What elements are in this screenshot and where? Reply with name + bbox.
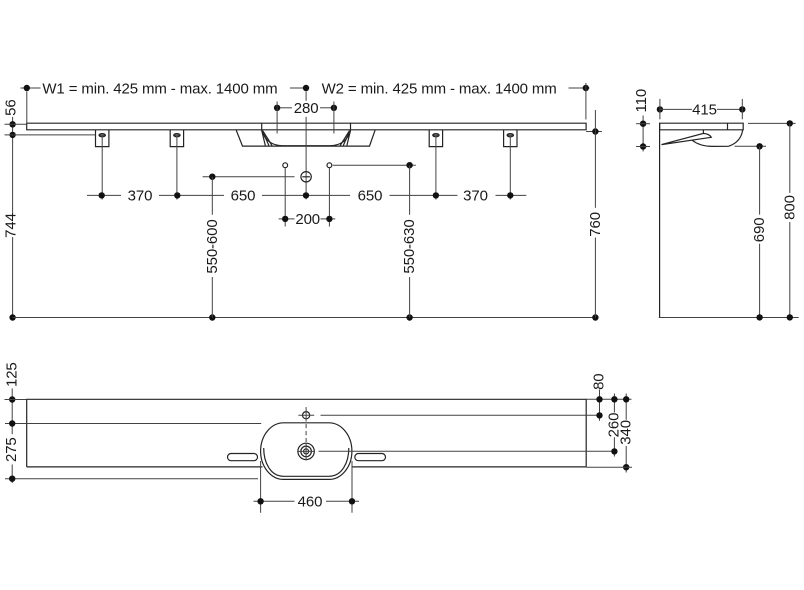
bowl hatch right (340, 130, 350, 145)
W extension lines (27, 83, 586, 123)
svg-text:460: 460 (298, 494, 323, 511)
bowl rim left bar (261, 123, 263, 131)
faucet hole plan view (298, 407, 314, 421)
slot left (228, 454, 258, 461)
dimension W1 row (21, 80, 310, 97)
dimension 260 (606, 394, 623, 457)
dimension 550-600 (204, 177, 221, 318)
back reference line (5, 423, 261, 425)
basin apron trapezoid front view (236, 130, 375, 146)
bracket 2 (170, 130, 183, 200)
slot right (355, 454, 386, 461)
countertop plan rectangle (27, 399, 587, 467)
svg-text:110: 110 (633, 89, 650, 113)
svg-text:275: 275 (3, 437, 20, 462)
basin rim connector side view (702, 130, 704, 134)
slab side view (660, 123, 744, 130)
dimension 56 / 744 left column (2, 99, 95, 320)
dimension 460 (254, 461, 360, 513)
svg-text:650: 650 (358, 188, 383, 205)
dimension 800 (748, 120, 798, 320)
svg-text:760: 760 (587, 212, 604, 237)
drain reference line (319, 450, 615, 452)
right columns top line (586, 398, 631, 400)
bracket 4 (504, 130, 517, 200)
basin front curve side view (729, 130, 743, 147)
svg-text:W2 = min. 425 mm - max. 1400 m: W2 = min. 425 mm - max. 1400 mm (322, 80, 557, 97)
hole circle right (327, 163, 332, 168)
svg-text:370: 370 (463, 188, 488, 205)
reference line to 550-630 (333, 164, 416, 166)
baseline (13, 317, 596, 319)
basin inner rim (264, 448, 349, 476)
reference line to 550-600 (203, 176, 295, 178)
bottom right line (586, 466, 632, 468)
dimension W2 row (322, 80, 590, 97)
svg-text:744: 744 (2, 213, 19, 238)
hole circle left (283, 163, 288, 168)
svg-text:340: 340 (618, 420, 635, 445)
basin wedge side view (662, 133, 712, 144)
center dashed line (305, 424, 307, 442)
centerline (305, 92, 307, 200)
svg-text:550-600: 550-600 (204, 219, 221, 273)
svg-text:650: 650 (231, 188, 256, 205)
svg-text:200: 200 (295, 211, 320, 228)
svg-text:80: 80 (591, 373, 608, 389)
hole extension lines (285, 168, 329, 227)
dimension 550-630 (401, 165, 418, 317)
dimension 200 (279, 211, 336, 228)
svg-text:125: 125 (4, 362, 21, 387)
svg-text:690: 690 (751, 218, 768, 243)
svg-text:800: 800 (781, 195, 798, 220)
dimension 80 (591, 373, 608, 420)
bracket 3 (429, 130, 442, 200)
faucet reference line (321, 414, 600, 416)
dimension 340 (618, 394, 635, 473)
dimension 760 (586, 110, 604, 318)
basin bowl side profile (692, 140, 729, 146)
front reference line (5, 478, 258, 480)
dimension 690 (735, 143, 769, 320)
svg-text:56: 56 (2, 99, 19, 115)
faucet symbol front view (301, 172, 311, 182)
bracket 1 (96, 130, 109, 200)
dimension 110 (633, 89, 650, 152)
drain plan view (297, 443, 315, 461)
svg-text:415: 415 (692, 102, 717, 119)
bowl hatch left (262, 130, 272, 145)
floor line (659, 317, 799, 319)
svg-text:280: 280 (294, 100, 319, 117)
svg-text:370: 370 (128, 188, 153, 205)
svg-text:550-630: 550-630 (401, 219, 418, 273)
basin oval plan view (261, 423, 352, 480)
bowl curve front view (262, 130, 351, 145)
svg-text:W1 = min. 425 mm - max. 1400 m: W1 = min. 425 mm - max. 1400 mm (42, 80, 277, 97)
dimension row 370 650 650 370 (87, 188, 526, 205)
dimension 280 (274, 100, 337, 133)
countertop slab front view (27, 123, 586, 130)
dimension 415 (657, 99, 746, 119)
wall line (659, 123, 661, 317)
dimension 125 / 275 left column (3, 362, 27, 483)
bowl rim right bar (350, 123, 352, 131)
